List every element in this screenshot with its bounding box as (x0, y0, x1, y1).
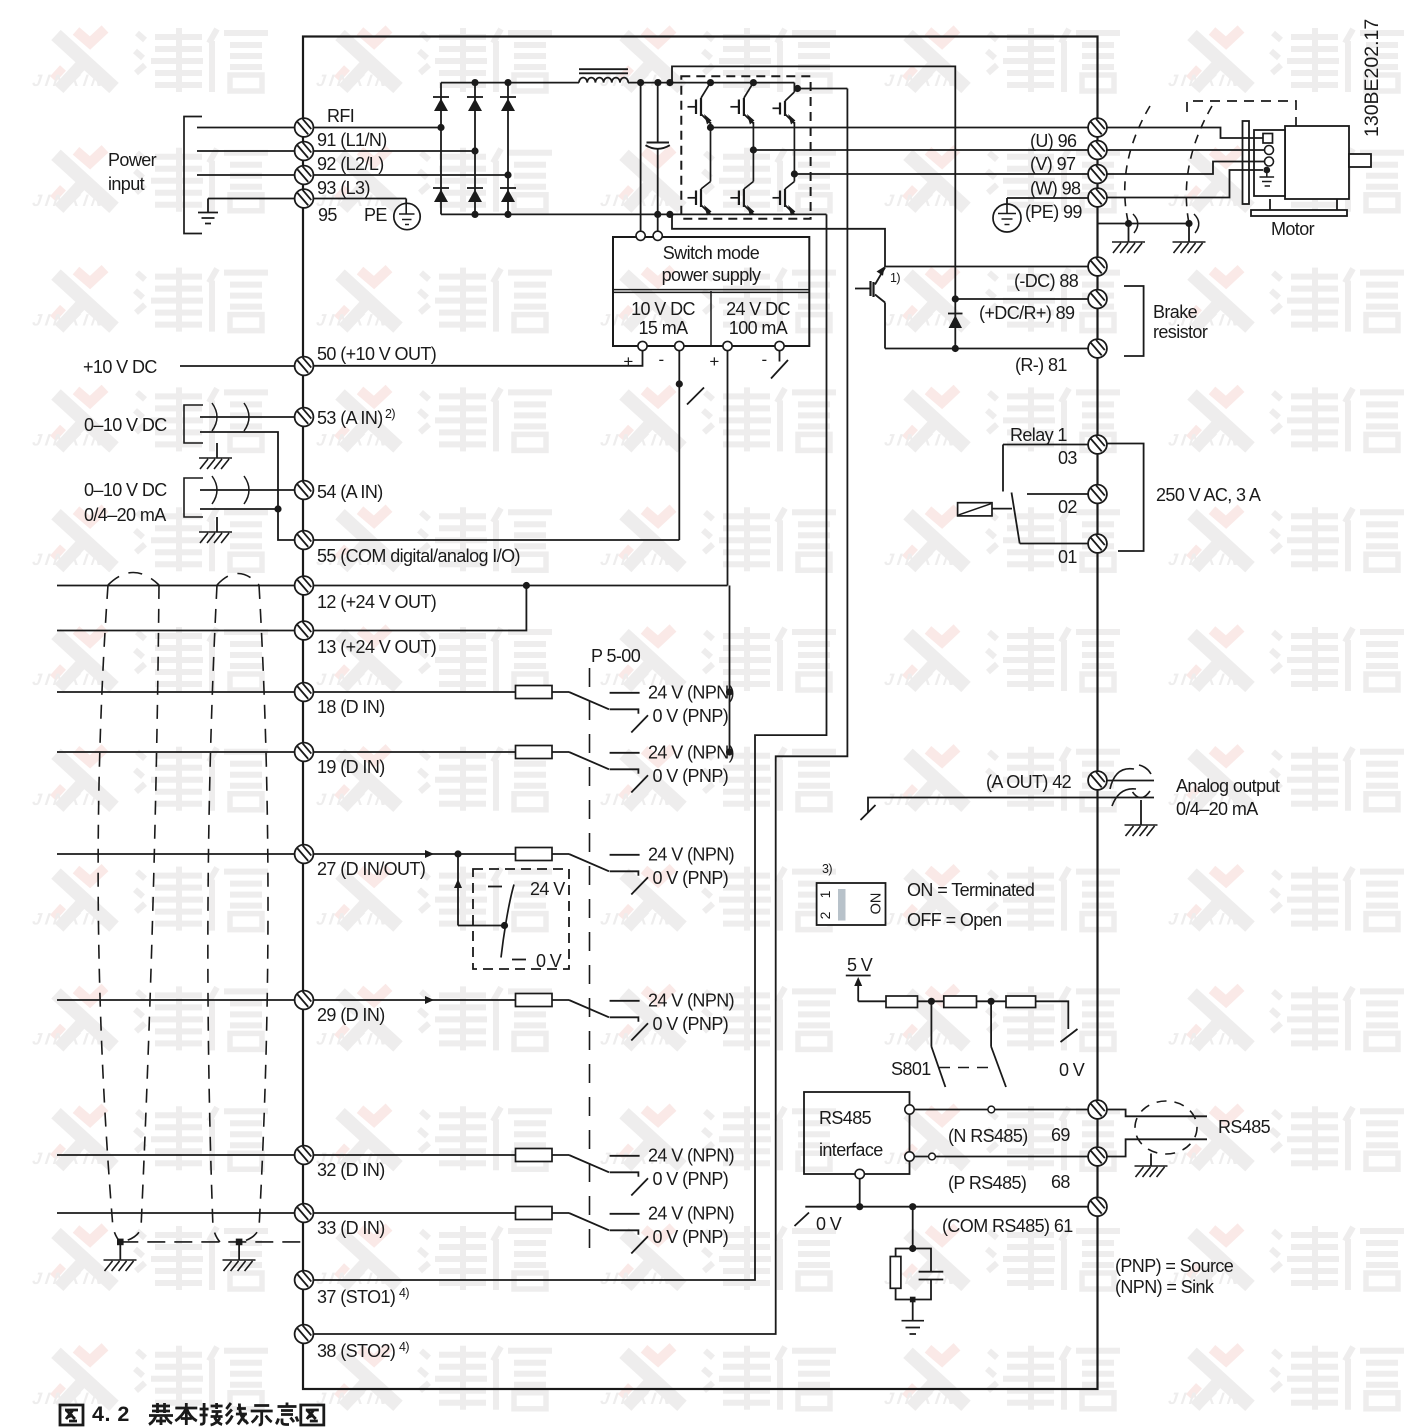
svg-text:(-DC) 88: (-DC) 88 (1014, 271, 1079, 291)
svg-text:32 (D IN): 32 (D IN) (317, 1160, 385, 1180)
svg-text:19 (D IN): 19 (D IN) (317, 757, 385, 777)
svg-text:5 V: 5 V (847, 955, 873, 975)
svg-text:OFF = Open: OFF = Open (907, 910, 1002, 930)
svg-text:01: 01 (1058, 547, 1077, 567)
svg-text:resistor: resistor (1153, 322, 1208, 342)
svg-text:0–10 V DC: 0–10 V DC (84, 415, 167, 435)
svg-text:(N RS485): (N RS485) (948, 1126, 1028, 1146)
svg-text:03: 03 (1058, 448, 1077, 468)
svg-text:4): 4) (399, 1286, 409, 1300)
svg-text:24 V (NPN): 24 V (NPN) (648, 683, 734, 703)
svg-text:0/4–20 mA: 0/4–20 mA (84, 505, 166, 525)
svg-text:53 (A IN): 53 (A IN) (317, 408, 383, 428)
svg-text:input: input (108, 174, 145, 194)
svg-text:0 V (PNP): 0 V (PNP) (653, 868, 729, 888)
svg-text:29 (D IN): 29 (D IN) (317, 1005, 385, 1025)
svg-text:3): 3) (822, 862, 832, 876)
svg-text:(P RS485): (P RS485) (948, 1173, 1026, 1193)
svg-text:Motor: Motor (1271, 219, 1315, 239)
svg-text:RS485: RS485 (1218, 1117, 1271, 1137)
svg-text:+: + (623, 352, 633, 371)
svg-text:93 (L3): 93 (L3) (317, 178, 370, 198)
svg-text:0 V: 0 V (536, 951, 562, 971)
svg-text:250 V AC, 3 A: 250 V AC, 3 A (1156, 485, 1261, 505)
svg-text:0 V (PNP): 0 V (PNP) (653, 766, 729, 786)
svg-text:(W) 98: (W) 98 (1030, 179, 1081, 199)
svg-text:(R-) 81: (R-) 81 (1015, 355, 1067, 375)
svg-text:24 V (NPN): 24 V (NPN) (648, 845, 734, 865)
svg-text:1): 1) (890, 271, 900, 285)
svg-text:24 V (NPN): 24 V (NPN) (648, 1146, 734, 1166)
svg-text:24 V DC: 24 V DC (726, 299, 790, 319)
svg-text:0 V (PNP): 0 V (PNP) (653, 1014, 729, 1034)
svg-text:2): 2) (385, 407, 395, 421)
svg-text:Analog output: Analog output (1176, 776, 1280, 796)
svg-text:S801: S801 (891, 1059, 931, 1079)
svg-text:55 (COM digital/analog I/O): 55 (COM digital/analog I/O) (317, 546, 520, 566)
svg-text:0 V (PNP): 0 V (PNP) (653, 1227, 729, 1247)
svg-text:0–10 V DC: 0–10 V DC (84, 480, 167, 500)
svg-text:38 (STO2): 38 (STO2) (317, 1341, 395, 1361)
svg-text:4): 4) (399, 1340, 409, 1354)
svg-text:P 5-00: P 5-00 (591, 646, 641, 666)
svg-text:24 V (NPN): 24 V (NPN) (648, 991, 734, 1011)
svg-text:24 V (NPN): 24 V (NPN) (648, 743, 734, 763)
svg-text:(PNP) = Source: (PNP) = Source (1115, 1256, 1234, 1276)
svg-text:RFI: RFI (327, 106, 354, 126)
svg-text:100 mA: 100 mA (729, 318, 788, 338)
svg-text:power supply: power supply (662, 265, 761, 285)
svg-text:ON = Terminated: ON = Terminated (907, 880, 1034, 900)
svg-text:95: 95 (318, 205, 337, 225)
svg-text:4. 2: 4. 2 (92, 1402, 130, 1426)
svg-text:PE: PE (364, 205, 387, 225)
svg-text:0 V (PNP): 0 V (PNP) (653, 706, 729, 726)
svg-text:130BE202.17: 130BE202.17 (1361, 19, 1383, 137)
svg-text:33 (D IN): 33 (D IN) (317, 1218, 385, 1238)
svg-text:92 (L2/L): 92 (L2/L) (317, 154, 384, 174)
svg-text:50 (+10 V OUT): 50 (+10 V OUT) (317, 344, 436, 364)
svg-text:interface: interface (819, 1140, 883, 1160)
svg-text:+: + (709, 352, 719, 371)
svg-text:0 V: 0 V (1059, 1060, 1085, 1080)
svg-text:+10 V DC: +10 V DC (83, 357, 157, 377)
svg-text:10 V DC: 10 V DC (631, 299, 695, 319)
svg-text:(PE) 99: (PE) 99 (1025, 202, 1082, 222)
svg-text:Power: Power (108, 150, 157, 170)
svg-text:ON: ON (869, 893, 885, 915)
svg-text:1: 1 (817, 890, 833, 898)
svg-text:2: 2 (817, 911, 833, 919)
svg-text:54 (A IN): 54 (A IN) (317, 482, 383, 502)
svg-text:-: - (761, 350, 766, 369)
svg-text:13 (+24 V OUT): 13 (+24 V OUT) (317, 637, 436, 657)
svg-text:18 (D IN): 18 (D IN) (317, 697, 385, 717)
svg-text:12 (+24 V OUT): 12 (+24 V OUT) (317, 592, 436, 612)
svg-text:15 mA: 15 mA (638, 318, 688, 338)
svg-text:(NPN) = Sink: (NPN) = Sink (1115, 1277, 1215, 1297)
svg-text:0 V: 0 V (816, 1214, 842, 1234)
svg-text:02: 02 (1058, 497, 1077, 517)
svg-text:(+DC/R+) 89: (+DC/R+) 89 (979, 303, 1075, 323)
svg-text:-: - (658, 350, 663, 369)
svg-text:(V) 97: (V) 97 (1030, 154, 1076, 174)
svg-text:37 (STO1): 37 (STO1) (317, 1287, 395, 1307)
svg-text:(A OUT) 42: (A OUT) 42 (986, 772, 1072, 792)
svg-text:68: 68 (1051, 1172, 1070, 1192)
svg-text:Relay 1: Relay 1 (1010, 425, 1067, 445)
svg-text:RS485: RS485 (819, 1108, 872, 1128)
svg-text:0 V (PNP): 0 V (PNP) (653, 1169, 729, 1189)
svg-text:(U) 96: (U) 96 (1030, 131, 1077, 151)
svg-text:Switch mode: Switch mode (663, 243, 760, 263)
svg-text:24 V (NPN): 24 V (NPN) (648, 1204, 734, 1224)
svg-text:(COM RS485) 61: (COM RS485) 61 (942, 1216, 1073, 1236)
svg-text:Brake: Brake (1153, 302, 1198, 322)
svg-text:91 (L1/N): 91 (L1/N) (317, 130, 387, 150)
svg-text:69: 69 (1051, 1125, 1070, 1145)
svg-text:24 V: 24 V (530, 879, 565, 899)
svg-text:27 (D IN/OUT): 27 (D IN/OUT) (317, 859, 425, 879)
svg-text:0/4–20 mA: 0/4–20 mA (1176, 799, 1258, 819)
